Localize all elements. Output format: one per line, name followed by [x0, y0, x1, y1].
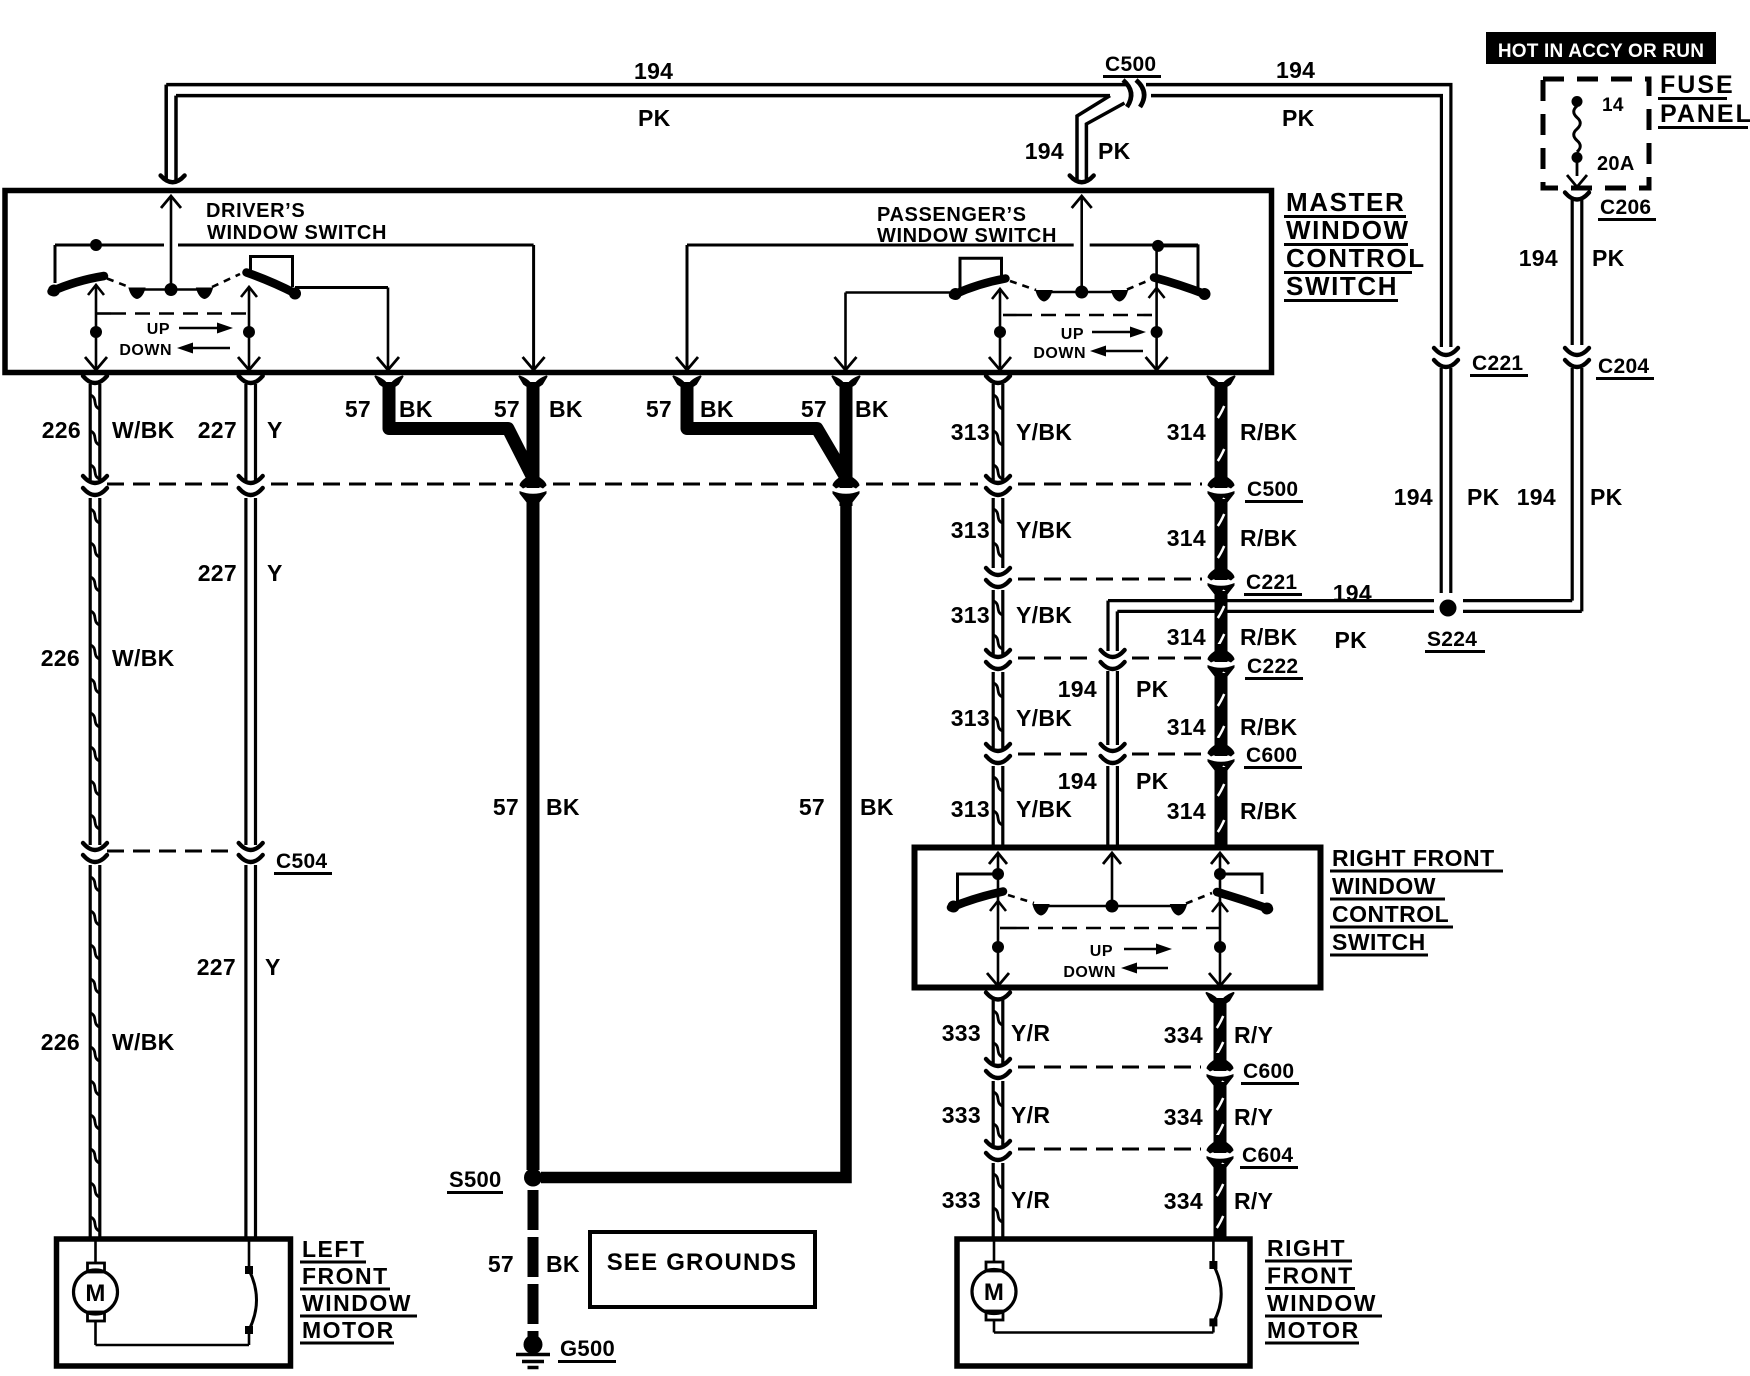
- connector bell at master box top (driver feed): [161, 176, 185, 183]
- wire 313 Y/BK seg5: [992, 766, 995, 845]
- right motor wiring: [993, 1241, 996, 1262]
- svg-text:R/BK: R/BK: [1240, 798, 1298, 824]
- svg-text:57: 57: [493, 794, 519, 820]
- svg-text:PK: PK: [1334, 627, 1367, 653]
- svg-text:S500: S500: [449, 1167, 502, 1192]
- svg-text:Y: Y: [265, 954, 281, 980]
- svg-text:DOWN: DOWN: [1033, 345, 1086, 362]
- wire 334 R/Y seg3: [1214, 1164, 1227, 1240]
- wire 194 PK below C204 to corner: [1571, 368, 1574, 601]
- svg-text:WINDOW SWITCH: WINDOW SWITCH: [207, 222, 387, 244]
- svg-text:UP: UP: [1090, 943, 1113, 960]
- wire 57 BK (driver feed) vertical: [520, 377, 547, 388]
- svg-text:CONTROL: CONTROL: [1286, 243, 1426, 273]
- svg-text:BK: BK: [700, 396, 734, 422]
- wire 334 R/Y seg1: [1207, 993, 1234, 1004]
- svg-text:57: 57: [345, 396, 371, 422]
- svg-text:R/Y: R/Y: [1234, 1188, 1273, 1214]
- passenger switch right output wire: [1155, 246, 1158, 368]
- svg-text:Y: Y: [267, 560, 283, 586]
- svg-text:194: 194: [1276, 57, 1315, 83]
- svg-text:194: 194: [1058, 768, 1097, 794]
- svg-text:Y/BK: Y/BK: [1016, 517, 1072, 543]
- passenger switch left tip wire: [846, 291, 954, 294]
- svg-text:C204: C204: [1598, 355, 1649, 378]
- svg-text:PK: PK: [1136, 768, 1169, 794]
- rf switch left lever: [951, 892, 1003, 908]
- svg-text:333: 333: [942, 1187, 981, 1213]
- splice S500: [524, 1169, 542, 1187]
- svg-text:57: 57: [488, 1251, 514, 1277]
- driver switch right pivot output: [241, 287, 257, 297]
- svg-text:WINDOW: WINDOW: [1332, 873, 1436, 899]
- svg-text:314: 314: [1167, 525, 1206, 551]
- svg-text:333: 333: [942, 1102, 981, 1128]
- svg-text:S224: S224: [1427, 628, 1477, 651]
- passenger switch right lever: [1154, 278, 1206, 295]
- wire 194 PK top horizontal run (left segment): [166, 83, 1126, 87]
- passenger switch left frame: [960, 258, 1002, 288]
- svg-text:314: 314: [1167, 798, 1206, 824]
- svg-text:194: 194: [634, 58, 673, 84]
- svg-text:Y/BK: Y/BK: [1016, 602, 1072, 628]
- svg-text:227: 227: [198, 417, 237, 443]
- svg-text:UP: UP: [1061, 326, 1084, 343]
- connector line C221 (dashed): [1018, 578, 1202, 581]
- svg-text:313: 313: [951, 796, 990, 822]
- left motor wiring: [94, 1241, 97, 1263]
- wire 57 BK down to S500: [527, 499, 540, 1170]
- svg-text:C504: C504: [276, 850, 327, 873]
- svg-text:R/BK: R/BK: [1240, 624, 1298, 650]
- svg-text:Y/R: Y/R: [1011, 1020, 1050, 1046]
- driver switch left lever: [52, 276, 105, 292]
- driver switch right frame: [251, 257, 293, 288]
- wire 227 Y segment 2: [244, 498, 247, 845]
- svg-text:WINDOW: WINDOW: [302, 1290, 412, 1316]
- wire 194 PK top right segment to corner: [1146, 83, 1453, 87]
- passenger switch left lever: [953, 279, 1006, 296]
- see grounds note box: [590, 1232, 815, 1307]
- svg-text:R/BK: R/BK: [1240, 419, 1298, 445]
- driver bus feed down wire: [532, 245, 535, 368]
- svg-text:Y/BK: Y/BK: [1016, 705, 1072, 731]
- svg-text:194: 194: [1058, 676, 1097, 702]
- passenger switch contact row: [1044, 291, 1120, 294]
- wire 314 R/BK seg1: [1208, 377, 1235, 388]
- svg-text:C600: C600: [1246, 744, 1297, 767]
- svg-text:BK: BK: [860, 794, 894, 820]
- svg-text:R/BK: R/BK: [1240, 525, 1298, 551]
- left motor M circle: [74, 1270, 118, 1314]
- right motor brushes: [986, 1262, 1003, 1271]
- rf switch feed arrows: [989, 853, 1007, 864]
- connector 313 at C500: [986, 476, 1010, 483]
- svg-text:313: 313: [951, 517, 990, 543]
- passenger switch left pivot output: [992, 289, 1008, 299]
- svg-text:BK: BK: [855, 396, 889, 422]
- rf switch right chevron: [1212, 902, 1228, 912]
- passenger bus feed down wire: [686, 245, 689, 368]
- left front window motor box: [57, 1239, 291, 1366]
- ground G500: [524, 1335, 543, 1354]
- right motor commutator arc: [1213, 1265, 1221, 1322]
- right front window motor box: [957, 1239, 1250, 1366]
- svg-text:Y/R: Y/R: [1011, 1102, 1050, 1128]
- svg-text:FRONT: FRONT: [302, 1263, 389, 1289]
- connector C204 inline: [1565, 348, 1589, 355]
- svg-text:C600: C600: [1243, 1060, 1294, 1083]
- svg-text:PK: PK: [1590, 484, 1623, 510]
- driver switch left frame: [54, 245, 57, 283]
- svg-text:DOWN: DOWN: [119, 342, 172, 359]
- splice S224: [1440, 600, 1457, 617]
- svg-text:PANEL: PANEL: [1660, 100, 1750, 128]
- svg-text:Y: Y: [267, 417, 283, 443]
- svg-text:C222: C222: [1247, 655, 1298, 678]
- driver switch right tip wire: [295, 286, 388, 289]
- wire 57 BK dashed to ground: [528, 1190, 539, 1337]
- svg-text:57: 57: [646, 396, 672, 422]
- svg-text:334: 334: [1164, 1104, 1203, 1130]
- svg-text:BK: BK: [546, 794, 580, 820]
- wire 314 R/BK seg4: [1215, 673, 1228, 745]
- svg-text:MASTER: MASTER: [1286, 187, 1405, 217]
- connector line C604 (dashed): [1018, 1148, 1201, 1151]
- svg-text:PASSENGER’S: PASSENGER’S: [877, 204, 1027, 226]
- svg-text:UP: UP: [147, 321, 170, 338]
- svg-text:PK: PK: [1136, 676, 1169, 702]
- svg-text:C221: C221: [1246, 571, 1297, 594]
- connector 313 at C222: [986, 650, 1010, 657]
- svg-text:334: 334: [1164, 1022, 1203, 1048]
- wire 333 Y/R seg1 + bell: [986, 993, 1010, 1000]
- svg-text:W/BK: W/BK: [112, 645, 175, 671]
- wire 314 R/BK seg5: [1215, 767, 1228, 845]
- svg-text:313: 313: [951, 419, 990, 445]
- svg-text:Y/BK: Y/BK: [1016, 419, 1072, 445]
- svg-text:194: 194: [1394, 484, 1433, 510]
- wire 194 PK below C221: [1440, 368, 1443, 593]
- rf switch left chevron: [990, 901, 1006, 911]
- svg-text:313: 313: [951, 705, 990, 731]
- svg-text:226: 226: [41, 1029, 80, 1055]
- wire 227 Y segment 1 + bell: [239, 376, 263, 383]
- svg-text:226: 226: [41, 645, 80, 671]
- wire 57 BK (passenger feed) elbow: [674, 377, 701, 388]
- connector line C600 (dashed): [1018, 753, 1093, 756]
- svg-text:PK: PK: [1467, 484, 1500, 510]
- rf switch contact dashes: [1008, 895, 1034, 903]
- wire 57 BK (passenger out) vertical: [833, 377, 860, 388]
- svg-text:194: 194: [1519, 245, 1558, 271]
- connector on 194 at C600: [1101, 744, 1125, 751]
- svg-text:HOT IN ACCY OR RUN: HOT IN ACCY OR RUN: [1498, 41, 1704, 62]
- connector bell C206 below fuse panel: [1565, 193, 1589, 200]
- rf switch right lever: [1217, 892, 1269, 909]
- connector on 227 at C504: [239, 843, 263, 850]
- driver switch contact dashes: [107, 279, 129, 288]
- connector on 227 at C500: [239, 476, 263, 483]
- svg-text:226: 226: [42, 417, 81, 443]
- connector line C222 (dashed): [1018, 657, 1093, 660]
- wire 314 R/BK seg2: [1215, 499, 1228, 569]
- connector on 226 at C500: [83, 476, 107, 483]
- svg-text:DRIVER’S: DRIVER’S: [206, 200, 305, 222]
- wire 57 BK down and left to S500: [541, 499, 846, 1178]
- wire 226 W/BK segment 2: [89, 498, 92, 845]
- connector 334 at C600: [1214, 1057, 1227, 1071]
- power source tag HOT IN ACCY OR RUN: [1486, 32, 1716, 64]
- driver switch feed arrow (center): [161, 196, 181, 208]
- wire 333 Y/R seg3: [992, 1163, 995, 1240]
- svg-text:SEE GROUNDS: SEE GROUNDS: [607, 1249, 798, 1276]
- svg-text:194: 194: [1025, 138, 1064, 164]
- rf switch right frame: [1214, 868, 1226, 880]
- svg-text:M: M: [85, 1280, 105, 1307]
- svg-text:227: 227: [197, 954, 236, 980]
- svg-text:20A: 20A: [1597, 153, 1635, 175]
- wire 314 R/BK seg3: [1215, 591, 1228, 651]
- svg-text:WINDOW: WINDOW: [1267, 1290, 1377, 1316]
- connector 314 at C500: [1215, 474, 1228, 488]
- wire 334 R/Y seg2: [1214, 1082, 1227, 1142]
- svg-text:RIGHT FRONT: RIGHT FRONT: [1332, 845, 1495, 871]
- wire 194 PK down from S224 corner to right switch: [1106, 601, 1109, 651]
- connector C500 inline symbol (double chevrons): [1123, 80, 1131, 107]
- connector 314 at C222: [1215, 648, 1228, 662]
- right front window control switch box: [915, 848, 1321, 988]
- rf switch up-down dashed line: [1000, 927, 1014, 930]
- svg-text:C500: C500: [1247, 478, 1298, 501]
- svg-text:FUSE: FUSE: [1660, 71, 1735, 99]
- svg-text:Y/BK: Y/BK: [1016, 796, 1072, 822]
- svg-text:333: 333: [942, 1020, 981, 1046]
- driver switch up-down dashed line: [97, 312, 111, 315]
- svg-text:BK: BK: [399, 396, 433, 422]
- svg-text:C221: C221: [1472, 352, 1523, 375]
- svg-text:57: 57: [799, 794, 825, 820]
- rf switch left frame: [992, 868, 1004, 880]
- svg-text:314: 314: [1167, 624, 1206, 650]
- master window control switch box: [5, 191, 1272, 373]
- svg-text:PK: PK: [638, 105, 671, 131]
- svg-text:M: M: [984, 1279, 1004, 1306]
- wire 194 PK from fuse to C204: [1571, 200, 1574, 345]
- connector on 226 at C504: [83, 843, 107, 850]
- wire 226 W/BK segment 1 + bell: [83, 376, 107, 383]
- wire 194 PK horizontal to S224: [1108, 599, 1434, 602]
- wire 313 Y/BK seg2: [992, 498, 995, 568]
- svg-text:314: 314: [1167, 714, 1206, 740]
- wire 313 Y/BK seg4: [992, 672, 995, 748]
- svg-text:227: 227: [198, 560, 237, 586]
- svg-text:R/Y: R/Y: [1234, 1022, 1273, 1048]
- svg-text:R/Y: R/Y: [1234, 1104, 1273, 1130]
- rf switch output dots: [992, 941, 1004, 953]
- svg-text:194: 194: [1333, 580, 1372, 606]
- passenger switch feed arrow (center): [1072, 196, 1092, 208]
- svg-text:CONTROL: CONTROL: [1332, 901, 1449, 927]
- connector bell at master box top (passenger feed): [1070, 176, 1094, 183]
- wire 57 BK (driver out) elbow: [376, 377, 403, 388]
- svg-text:57: 57: [494, 396, 520, 422]
- connector on 194 at C222: [1101, 650, 1125, 657]
- wire 313 Y/BK seg1 + bell: [986, 376, 1010, 383]
- passenger switch contact dashes: [1010, 281, 1036, 290]
- driver switch right lever: [247, 273, 297, 295]
- wire 313 Y/BK seg3: [992, 590, 995, 654]
- connector on 57 c6 at C500: [840, 476, 853, 488]
- svg-text:313: 313: [951, 602, 990, 628]
- svg-text:PK: PK: [1098, 138, 1131, 164]
- connector 313 at C600: [986, 744, 1010, 751]
- svg-text:WINDOW: WINDOW: [1286, 215, 1410, 245]
- passenger switch bus wire: [687, 244, 1074, 247]
- rf switch contact row: [1041, 905, 1179, 908]
- driver switch contact row: [137, 288, 204, 291]
- svg-text:C500: C500: [1105, 53, 1156, 76]
- svg-text:Y/R: Y/R: [1011, 1187, 1050, 1213]
- connector 333 at C604: [986, 1141, 1010, 1148]
- svg-text:RIGHT: RIGHT: [1267, 1235, 1346, 1261]
- connector line C500 (dashed): [107, 483, 231, 486]
- wire 226 W/BK segment 3: [89, 865, 92, 1238]
- svg-text:MOTOR: MOTOR: [302, 1317, 395, 1343]
- svg-text:C604: C604: [1242, 1144, 1293, 1167]
- rf switch bottom arrows: [987, 973, 1009, 986]
- svg-text:G500: G500: [560, 1336, 615, 1361]
- connector line C600 lower (dashed): [1018, 1066, 1201, 1069]
- connector 333 at C600: [986, 1059, 1010, 1066]
- svg-text:57: 57: [801, 396, 827, 422]
- svg-text:W/BK: W/BK: [112, 1029, 175, 1055]
- connector 334 at C604: [1214, 1139, 1227, 1153]
- svg-text:W/BK: W/BK: [112, 417, 175, 443]
- svg-text:BK: BK: [549, 396, 583, 422]
- svg-text:BK: BK: [546, 1251, 580, 1277]
- connector 313 at C221: [986, 568, 1010, 575]
- svg-text:FRONT: FRONT: [1267, 1263, 1354, 1289]
- svg-text:LEFT: LEFT: [302, 1236, 366, 1262]
- svg-text:SWITCH: SWITCH: [1286, 271, 1398, 301]
- svg-text:PK: PK: [1592, 245, 1625, 271]
- fuse F14 20A symbol: [1572, 96, 1583, 107]
- svg-text:14: 14: [1602, 95, 1624, 116]
- connector C221 inline (on 194 feed): [1434, 348, 1458, 355]
- wire 227 Y segment 3: [244, 865, 247, 1238]
- connector on 57 at C500 (skirt+tulip): [527, 476, 540, 488]
- driver switch bus wire: [55, 244, 164, 247]
- svg-text:R/BK: R/BK: [1240, 714, 1298, 740]
- connector 314 at C221: [1215, 566, 1228, 580]
- svg-text:194: 194: [1517, 484, 1556, 510]
- fuse panel dashed box: [1543, 79, 1649, 188]
- svg-text:314: 314: [1167, 419, 1206, 445]
- left motor commutator arc: [249, 1270, 257, 1330]
- wire 194 PK diagonal down to master switch (driver feed): [1077, 96, 1110, 181]
- svg-text:PK: PK: [1282, 105, 1315, 131]
- svg-text:SWITCH: SWITCH: [1332, 929, 1426, 955]
- connector 314 at C600: [1215, 742, 1228, 756]
- driver switch left output wire: [88, 285, 104, 295]
- svg-text:334: 334: [1164, 1188, 1203, 1214]
- wire 333 Y/R seg2: [992, 1081, 995, 1145]
- svg-text:MOTOR: MOTOR: [1267, 1317, 1360, 1343]
- svg-text:DOWN: DOWN: [1063, 964, 1116, 981]
- left motor brushes: [88, 1263, 105, 1272]
- svg-text:C206: C206: [1600, 196, 1651, 219]
- right motor M circle: [972, 1270, 1016, 1314]
- connector line C504 (dashed): [107, 850, 235, 853]
- passenger switch right frame: [1152, 240, 1164, 252]
- passenger switch up-down dashed line: [1003, 314, 1017, 317]
